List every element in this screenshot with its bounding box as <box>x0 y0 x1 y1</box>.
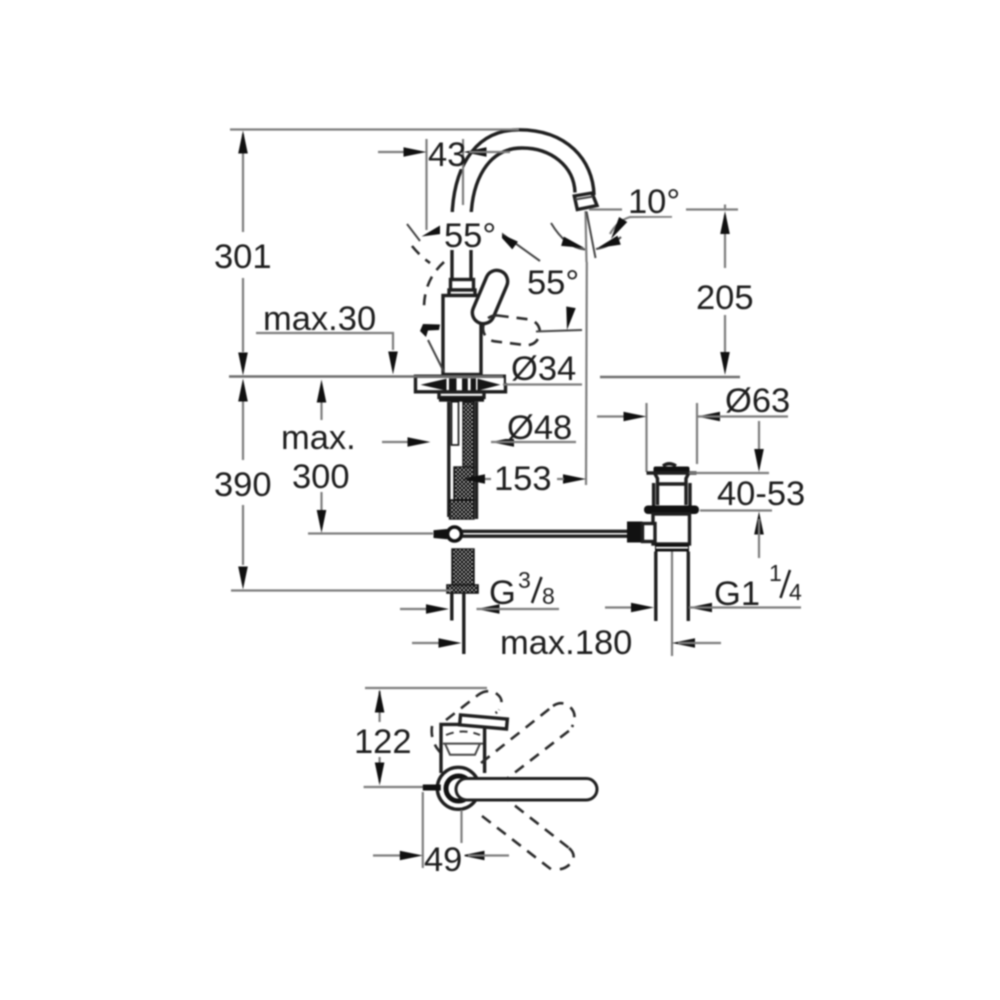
svg-text:153: 153 <box>494 460 552 498</box>
svg-text:301: 301 <box>214 238 272 276</box>
svg-text:G1: G1 <box>714 575 760 613</box>
svg-text:55°: 55° <box>527 264 579 302</box>
svg-text:1: 1 <box>769 560 782 586</box>
svg-text:40-53: 40-53 <box>717 475 805 513</box>
svg-text:43: 43 <box>428 136 466 174</box>
svg-text:300: 300 <box>292 458 350 496</box>
svg-text:G: G <box>489 574 516 612</box>
svg-text:122: 122 <box>354 723 412 761</box>
svg-text:Ø48: Ø48 <box>507 409 572 447</box>
svg-text:8: 8 <box>542 583 555 609</box>
svg-text:max.30: max.30 <box>263 300 376 338</box>
svg-text:10°: 10° <box>628 183 680 221</box>
svg-text:Ø34: Ø34 <box>511 350 576 388</box>
svg-text:49: 49 <box>424 841 462 879</box>
svg-text:390: 390 <box>214 466 272 504</box>
svg-text:3: 3 <box>518 567 531 593</box>
svg-text:4: 4 <box>789 579 802 605</box>
svg-text:max.180: max.180 <box>500 624 632 662</box>
svg-text:max.: max. <box>281 419 356 457</box>
svg-text:205: 205 <box>696 279 754 317</box>
svg-text:Ø63: Ø63 <box>725 382 790 420</box>
svg-text:55°: 55° <box>444 217 496 255</box>
